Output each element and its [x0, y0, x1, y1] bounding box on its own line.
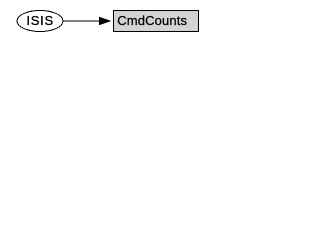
node ISIS (ellipse): [17, 11, 63, 32]
svg-text:CmdCounts: CmdCounts: [117, 13, 187, 28]
arrowhead: [100, 17, 110, 24]
background: [0, 0, 209, 41]
svg-text:ISIS: ISIS: [26, 13, 54, 28]
wire edge ISIS to CmdCounts: [63, 20, 101, 22]
node CmdCounts (box): [114, 11, 199, 32]
